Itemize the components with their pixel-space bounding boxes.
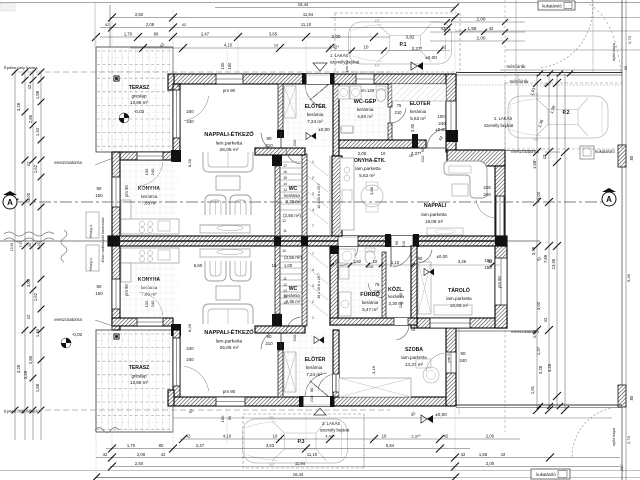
WC stair room walls top: [272, 154, 282, 166]
WC-GEP east wall: [388, 84, 392, 107]
svg-text:Építési hely határa: Építési hely határa: [4, 409, 38, 414]
svg-text:5,47 m²: 5,47 m²: [362, 307, 378, 312]
svg-text:14: 14: [283, 182, 287, 186]
kitchen door swing bottom: [139, 292, 163, 316]
svg-text:pm 90: pm 90: [124, 284, 129, 296]
svg-text:30: 30: [623, 65, 628, 70]
kitchen north window 100/240: [137, 152, 163, 160]
party wall door gap to FURDO: [338, 236, 358, 246]
svg-text:42: 42: [489, 26, 494, 31]
svg-text:240: 240: [459, 358, 467, 363]
svg-text:1: 1: [312, 316, 314, 320]
svg-text:7,89: 7,89: [543, 254, 548, 263]
svg-text:2,00: 2,00: [486, 433, 495, 438]
svg-text:3,63: 3,63: [266, 443, 275, 448]
svg-text:4,10: 4,10: [223, 433, 232, 438]
svg-text:4,15: 4,15: [37, 243, 41, 250]
svg-text:2. LAKÁS: 2. LAKÁS: [494, 116, 512, 121]
svg-text:26,05 m²: 26,05 m²: [220, 345, 239, 351]
svg-text:6,60: 6,60: [194, 263, 203, 268]
svg-text:±0,00: ±0,00: [435, 412, 447, 418]
svg-text:10: 10: [373, 259, 378, 264]
svg-text:42: 42: [543, 317, 548, 322]
svg-text:kerámia: kerámia: [306, 365, 323, 370]
svg-text:NAPPALI-ÉTKEZŐ: NAPPALI-ÉTKEZŐ: [204, 328, 254, 336]
svg-text:7,24 m²: 7,24 m²: [307, 119, 323, 124]
svg-text:kerámia: kerámia: [362, 300, 379, 305]
svg-text:3: 3: [312, 284, 314, 288]
svg-text:80: 80: [159, 443, 164, 448]
svg-text:3,28: 3,28: [538, 365, 543, 374]
SZOBA desk chair: [423, 367, 439, 383]
svg-text:3,65: 3,65: [269, 31, 278, 36]
entry door arc unit1: [305, 85, 327, 108]
svg-text:10: 10: [409, 153, 414, 158]
closet ELOTER3 X: [284, 352, 296, 392]
SE corner wall SZOBA: [446, 327, 456, 406]
svg-text:42: 42: [26, 314, 31, 319]
svg-text:9,35: 9,35: [626, 273, 631, 282]
svg-text:11,10: 11,10: [301, 22, 312, 27]
south entry door gap unit3: [303, 397, 330, 406]
door ELOTER2-NAPPALI arc: [427, 129, 443, 148]
svg-text:pm 90: pm 90: [497, 276, 502, 288]
car 1 top view: [349, 20, 452, 66]
car 2 top view: [508, 94, 608, 140]
door KOZL to SZOBA: [394, 318, 408, 325]
svg-text:3,36 m²: 3,36 m²: [286, 299, 301, 304]
NW corner piece: [168, 74, 174, 90]
FURDO west wall: [330, 246, 338, 325]
svg-text:42: 42: [488, 259, 493, 264]
svg-text:42: 42: [501, 452, 506, 457]
svg-text:42: 42: [27, 84, 32, 89]
north wall entry door gap unit1: [306, 74, 330, 84]
svg-text:42: 42: [161, 452, 166, 457]
door ELOTER-SZOBA bottom: [333, 374, 339, 392]
NE corner wall step: [446, 74, 456, 152]
svg-text:2,00: 2,00: [486, 461, 495, 466]
bottom dimension chain row2: [106, 448, 470, 450]
wall ELOTER east bottom: [333, 330, 339, 397]
svg-text:240: 240: [438, 121, 446, 126]
svg-text:WC: WC: [289, 286, 298, 292]
svg-text:7,3: 7,3: [19, 243, 23, 248]
svg-text:nyíló kapu: nyíló kapu: [611, 428, 616, 446]
kitchen west window bottom: [112, 279, 120, 309]
svg-text:pm 90: pm 90: [223, 389, 236, 394]
svg-text:3,28: 3,28: [547, 363, 552, 372]
svg-text:210: 210: [309, 395, 314, 402]
door ELOTER-NAPPALI bottom: [277, 342, 284, 350]
parking space P.1 dashed outline: [335, 13, 460, 72]
svg-text:P.3: P.3: [297, 439, 304, 445]
svg-text:5,84: 5,84: [386, 443, 395, 448]
svg-text:2,37⁵: 2,37⁵: [412, 46, 423, 51]
east window 228/240 NAPPALI: [496, 196, 504, 236]
level marker tarolo: [424, 269, 434, 276]
svg-text:13,05: 13,05: [551, 258, 556, 269]
svg-text:pm 0: pm 0: [446, 353, 451, 363]
svg-text:90: 90: [461, 351, 466, 356]
svg-text:80: 80: [629, 395, 634, 400]
svg-text:2,70: 2,70: [627, 35, 632, 44]
svg-text:42: 42: [182, 22, 187, 27]
svg-text:42: 42: [26, 161, 31, 166]
svg-text:kukatároló: kukatároló: [542, 4, 562, 9]
svg-text:KÖZL.: KÖZL.: [388, 286, 404, 293]
sofa group bottom unit: [200, 249, 250, 257]
kukatarolo box right: [580, 146, 594, 159]
svg-text:10: 10: [274, 42, 279, 47]
TAROLO south window: [430, 318, 470, 328]
svg-text:mérőórák: mérőórák: [506, 64, 526, 69]
north wall entry door unit2 window: [356, 74, 374, 84]
stair steps bottom: [280, 255, 302, 257]
svg-text:5,62 m²: 5,62 m²: [359, 173, 375, 178]
gate swing dashed bottom right: [572, 407, 622, 457]
svg-text:40cm szikkasztó kavicssáv: 40cm szikkasztó kavicssáv: [101, 217, 105, 262]
black corner jamb: [446, 130, 458, 142]
svg-text:3,32 m²: 3,32 m²: [286, 199, 301, 204]
right dimension chain lines: [536, 74, 538, 410]
SZOBA window swing arc: [426, 353, 444, 371]
party wall (middle): [108, 236, 507, 246]
svg-text:210: 210: [398, 301, 403, 308]
svg-text:90: 90: [395, 241, 399, 245]
section marker A left: [3, 191, 17, 209]
svg-text:3,35: 3,35: [458, 259, 467, 264]
svg-text:150: 150: [220, 415, 225, 423]
svg-text:WC: WC: [289, 186, 298, 192]
ELOTER2 hatch area: [392, 84, 446, 101]
svg-text:1,70: 1,70: [127, 443, 136, 448]
SZOBA bed: [339, 378, 411, 397]
svg-text:±0,00: ±0,00: [318, 127, 330, 132]
svg-text:120: 120: [220, 62, 225, 70]
svg-text:16,44: 16,44: [298, 2, 309, 7]
svg-text:210: 210: [402, 241, 406, 247]
svg-text:90: 90: [227, 415, 232, 420]
fence hatch bottom right: [618, 385, 626, 407]
kitchen north wall top: [112, 152, 173, 160]
svg-text:16 x 16,8 x 29,7: 16 x 16,8 x 29,7: [317, 273, 321, 299]
svg-text:2,00: 2,00: [358, 151, 367, 156]
svg-text:210: 210: [374, 289, 382, 294]
svg-text:11,94: 11,94: [303, 12, 314, 17]
svg-text:1,40: 1,40: [35, 127, 40, 136]
svg-text:lam.parketta: lam.parketta: [421, 212, 447, 217]
tile grid ELOTER3: [287, 332, 289, 395]
kitchen west window 90/150 top: [112, 177, 120, 207]
svg-text:240: 240: [186, 346, 194, 351]
street edge lines top right: [330, 17, 640, 19]
svg-text:pm 90: pm 90: [344, 60, 349, 72]
entry arrow unit1: [313, 63, 327, 71]
svg-text:4,42⁵: 4,42⁵: [329, 45, 340, 50]
KONYHA-ETK west wall = stair east wall: [332, 156, 342, 236]
level marker near entry1: [411, 62, 423, 70]
svg-text:42: 42: [105, 22, 110, 27]
svg-text:100: 100: [437, 114, 445, 119]
top dimension chain row3 11.10: [100, 27, 450, 29]
svg-text:2,50: 2,50: [135, 461, 144, 466]
TAROLO wardrobe X: [418, 262, 431, 314]
svg-text:3,88: 3,88: [369, 186, 374, 195]
svg-text:3,00: 3,00: [536, 191, 541, 200]
tv bench NAPPALI: [427, 228, 463, 235]
svg-text:150: 150: [227, 62, 232, 70]
svg-text:240: 240: [150, 168, 155, 175]
terrace top drain symbol: [119, 113, 129, 123]
terrace door swing top: [184, 96, 209, 121]
svg-text:16 x 16,8 x 29,7: 16 x 16,8 x 29,7: [317, 183, 321, 209]
top dimension chain row2 11.94: [110, 17, 455, 19]
svg-text:1,82: 1,82: [353, 259, 362, 264]
svg-text:42: 42: [103, 452, 108, 457]
svg-text:2,08: 2,08: [137, 452, 146, 457]
small heater box: [341, 126, 353, 133]
svg-text:(3,56 m²): (3,56 m²): [284, 255, 302, 260]
WC stair room walls bottom: [272, 314, 282, 326]
fence hatch top right: [618, 145, 626, 167]
svg-text:pm 120: pm 120: [360, 88, 375, 93]
svg-text:1,58: 1,58: [468, 26, 477, 31]
svg-text:90: 90: [398, 292, 403, 297]
svg-text:4,42⁵: 4,42⁵: [325, 433, 335, 438]
svg-text:kukatároló: kukatároló: [536, 472, 556, 477]
svg-text:210: 210: [395, 110, 403, 115]
sliding door 240/240 top: [173, 90, 180, 138]
svg-text:SZOBA: SZOBA: [405, 347, 423, 353]
building placement boundary dashed top: [18, 71, 390, 73]
svg-text:kerámia: kerámia: [410, 109, 427, 114]
kitchen south window bottom: [137, 318, 163, 326]
kitchen counter KONYHA-ETK: [340, 158, 354, 230]
svg-text:1,58: 1,58: [479, 452, 488, 457]
svg-text:kerámia: kerámia: [357, 107, 374, 112]
left dimension chain lines: [14, 70, 16, 440]
door 75 FURDO: [368, 283, 383, 298]
svg-text:2,70: 2,70: [626, 435, 631, 444]
site boundary line top: [0, 2, 640, 4]
terrace top black marker: [114, 76, 120, 82]
svg-text:240: 240: [186, 119, 194, 124]
door arc ELOTER to WC: [286, 148, 301, 164]
svg-text:240: 240: [186, 357, 194, 362]
svg-text:90: 90: [418, 256, 423, 261]
drain symbol bottom: [61, 338, 71, 348]
svg-text:1,40: 1,40: [35, 328, 40, 337]
bottom dimension chain row5: [95, 477, 455, 479]
svg-text:lam.parketta: lam.parketta: [216, 141, 243, 147]
svg-text:13,86 m²: 13,86 m²: [130, 380, 149, 385]
svg-text:16: 16: [283, 170, 287, 174]
svg-text:75: 75: [397, 103, 402, 108]
building placement boundary dashed bottom: [18, 409, 390, 411]
section line A-A: [18, 201, 616, 203]
svg-text:1,91: 1,91: [530, 385, 535, 394]
dashed vertical lines misc: [504, 83, 506, 150]
svg-text:kerámia: kerámia: [284, 193, 300, 198]
svg-text:17: 17: [283, 164, 287, 168]
svg-text:P.1: P.1: [399, 42, 406, 48]
bottom dimension chain row4: [110, 466, 620, 468]
sofa group top unit: [203, 152, 253, 172]
svg-text:TERASZ: TERASZ: [129, 365, 150, 371]
svg-text:±0,00: ±0,00: [425, 55, 437, 61]
wall ELOTER-WCGEP top: [333, 84, 339, 156]
svg-text:2,08: 2,08: [146, 22, 155, 27]
svg-text:pm 90: pm 90: [223, 88, 236, 93]
dining small KONYHA-ETK: [361, 185, 383, 207]
gutter line right of SZOBA: [458, 328, 460, 415]
svg-text:3: 3: [312, 192, 314, 196]
extension lines bottom: [111, 326, 113, 462]
svg-text:lam.parketta: lam.parketta: [216, 339, 243, 345]
party wall axis extension right: [507, 240, 540, 242]
svg-text:240: 240: [150, 300, 155, 307]
squiggle break lines left: [4, 232, 54, 236]
sofa corner NAPPALI: [444, 161, 487, 198]
fence line right bottom: [456, 404, 622, 406]
entry arrow unit3: [314, 408, 326, 415]
svg-text:ereszcsatorna: ereszcsatorna: [54, 317, 82, 322]
svg-text:1,62: 1,62: [33, 292, 38, 301]
parking space P.3 dashed outline: [243, 414, 364, 468]
svg-text:A: A: [606, 195, 612, 204]
svg-text:11: 11: [283, 229, 287, 233]
kukatarolo box bottom: [531, 469, 570, 479]
svg-text:Építési hely határa: Építési hely határa: [4, 65, 38, 70]
WC-GEP fixtures: [338, 86, 349, 99]
svg-text:228: 228: [483, 185, 491, 190]
svg-text:210: 210: [292, 334, 297, 341]
west wall NAPPALI-ETKEZO top (terrace side): [173, 84, 180, 152]
svg-text:210: 210: [265, 143, 273, 148]
svg-text:150: 150: [95, 193, 103, 198]
kitchen counter bottom unit: [121, 248, 179, 263]
FURDO fixtures: [339, 249, 355, 263]
svg-text:ereszcsatorna: ereszcsatorna: [54, 160, 82, 165]
kitchen counter top unit: [121, 219, 179, 234]
svg-text:személy bejárat: személy bejárat: [484, 123, 514, 128]
north wall window 120/150: [216, 74, 243, 84]
svg-text:11: 11: [283, 277, 287, 281]
svg-text:2,47: 2,47: [196, 443, 205, 448]
svg-text:55: 55: [28, 243, 32, 247]
svg-text:7: 7: [312, 252, 314, 256]
svg-text:3,79: 3,79: [531, 246, 536, 255]
svg-text:150: 150: [95, 291, 103, 296]
svg-text:pm 90: pm 90: [124, 185, 129, 197]
svg-text:13,92: 13,92: [10, 243, 14, 252]
svg-text:Hőszig. k.: Hőszig. k.: [89, 224, 93, 238]
svg-text:nyíló kapu: nyíló kapu: [611, 43, 616, 61]
svg-text:90: 90: [267, 334, 272, 339]
svg-text:2,86: 2,86: [28, 355, 33, 364]
svg-text:90: 90: [97, 186, 102, 191]
svg-text:15: 15: [283, 176, 287, 180]
south wall FURDO KOZL row: [330, 318, 417, 325]
kitchen west wall top: [112, 152, 120, 246]
svg-text:16,44: 16,44: [293, 472, 304, 477]
svg-text:A: A: [7, 198, 13, 207]
svg-text:,31⁵: ,31⁵: [619, 464, 624, 472]
svg-text:90: 90: [420, 147, 425, 152]
svg-text:10: 10: [282, 249, 286, 253]
svg-text:1. LAKÁS: 1. LAKÁS: [330, 53, 348, 58]
svg-text:KONYHA-ÉTK.: KONYHA-ÉTK.: [350, 156, 386, 164]
terrace top (TERASZ unit1): [96, 47, 173, 152]
svg-text:14,37 m²: 14,37 m²: [405, 362, 424, 367]
tile grid ELOTER1: [287, 88, 289, 148]
tile grid FURDO: [341, 250, 343, 316]
svg-text:3,00: 3,00: [26, 278, 31, 287]
terrace door swing bottom: [184, 366, 209, 391]
svg-text:±0,00: ±0,00: [437, 254, 449, 259]
svg-text:TERASZ: TERASZ: [129, 85, 150, 91]
svg-text:3,28: 3,28: [23, 370, 28, 379]
svg-text:10: 10: [382, 433, 387, 438]
svg-text:4: 4: [312, 268, 314, 272]
top dimension chain row5: [130, 47, 330, 49]
kitchen tile grid top: [123, 161, 125, 235]
wall WC to ELOTER bottom: [255, 326, 305, 333]
left chain ticks and labels: [12, 69, 19, 76]
level marker eloter1: [306, 133, 316, 140]
svg-text:NAPPALI-ÉTKEZŐ: NAPPALI-ÉTKEZŐ: [204, 130, 254, 138]
svg-text:kerámia: kerámia: [307, 112, 324, 117]
kitchen south wall bottom: [112, 318, 173, 326]
svg-text:személy bejárat: személy bejárat: [320, 428, 350, 433]
svg-text:13,86 m²: 13,86 m²: [130, 100, 149, 105]
svg-text:3,28: 3,28: [16, 102, 21, 111]
svg-text:6,28: 6,28: [187, 158, 192, 167]
site line bottom: [95, 417, 612, 419]
svg-text:Hőszig. k.: Hőszig. k.: [89, 257, 93, 271]
svg-text:42: 42: [461, 452, 466, 457]
TAROLO shelf: [434, 305, 472, 315]
svg-text:1: 1: [312, 160, 314, 164]
svg-text:ELŐTÉR: ELŐTÉR: [305, 355, 326, 363]
east window ELOTER2: [446, 101, 456, 131]
car 3 top view: [243, 417, 348, 465]
TAROLO south wall: [417, 318, 507, 328]
section marker A right: [602, 188, 616, 206]
entry door arc unit3: [305, 373, 327, 396]
svg-text:210: 210: [265, 341, 273, 346]
svg-text:75: 75: [375, 282, 380, 287]
svg-text:7,24 m²: 7,24 m²: [306, 372, 322, 377]
neighbor boundary line: [592, 0, 594, 72]
coffee table NAPPALI: [452, 184, 468, 196]
svg-text:TÁROLÓ: TÁROLÓ: [448, 286, 470, 294]
svg-text:1,62: 1,62: [33, 164, 38, 173]
svg-text:90: 90: [309, 387, 314, 392]
bottom dimension chain row1: [180, 438, 520, 440]
svg-text:80: 80: [629, 155, 634, 160]
svg-text:210: 210: [420, 155, 425, 162]
svg-text:2,00: 2,00: [477, 36, 486, 41]
svg-text:12: 12: [283, 283, 287, 287]
west wall NAPPALI-ETKEZO bottom: [173, 330, 180, 397]
east window swing arc: [476, 200, 494, 218]
parking space P.2 dashed outline: [505, 83, 622, 149]
stair shaft top: [329, 156, 331, 236]
door 90/210 ELOTER-NAPPALI top: [277, 130, 284, 138]
svg-text:42: 42: [442, 45, 447, 50]
